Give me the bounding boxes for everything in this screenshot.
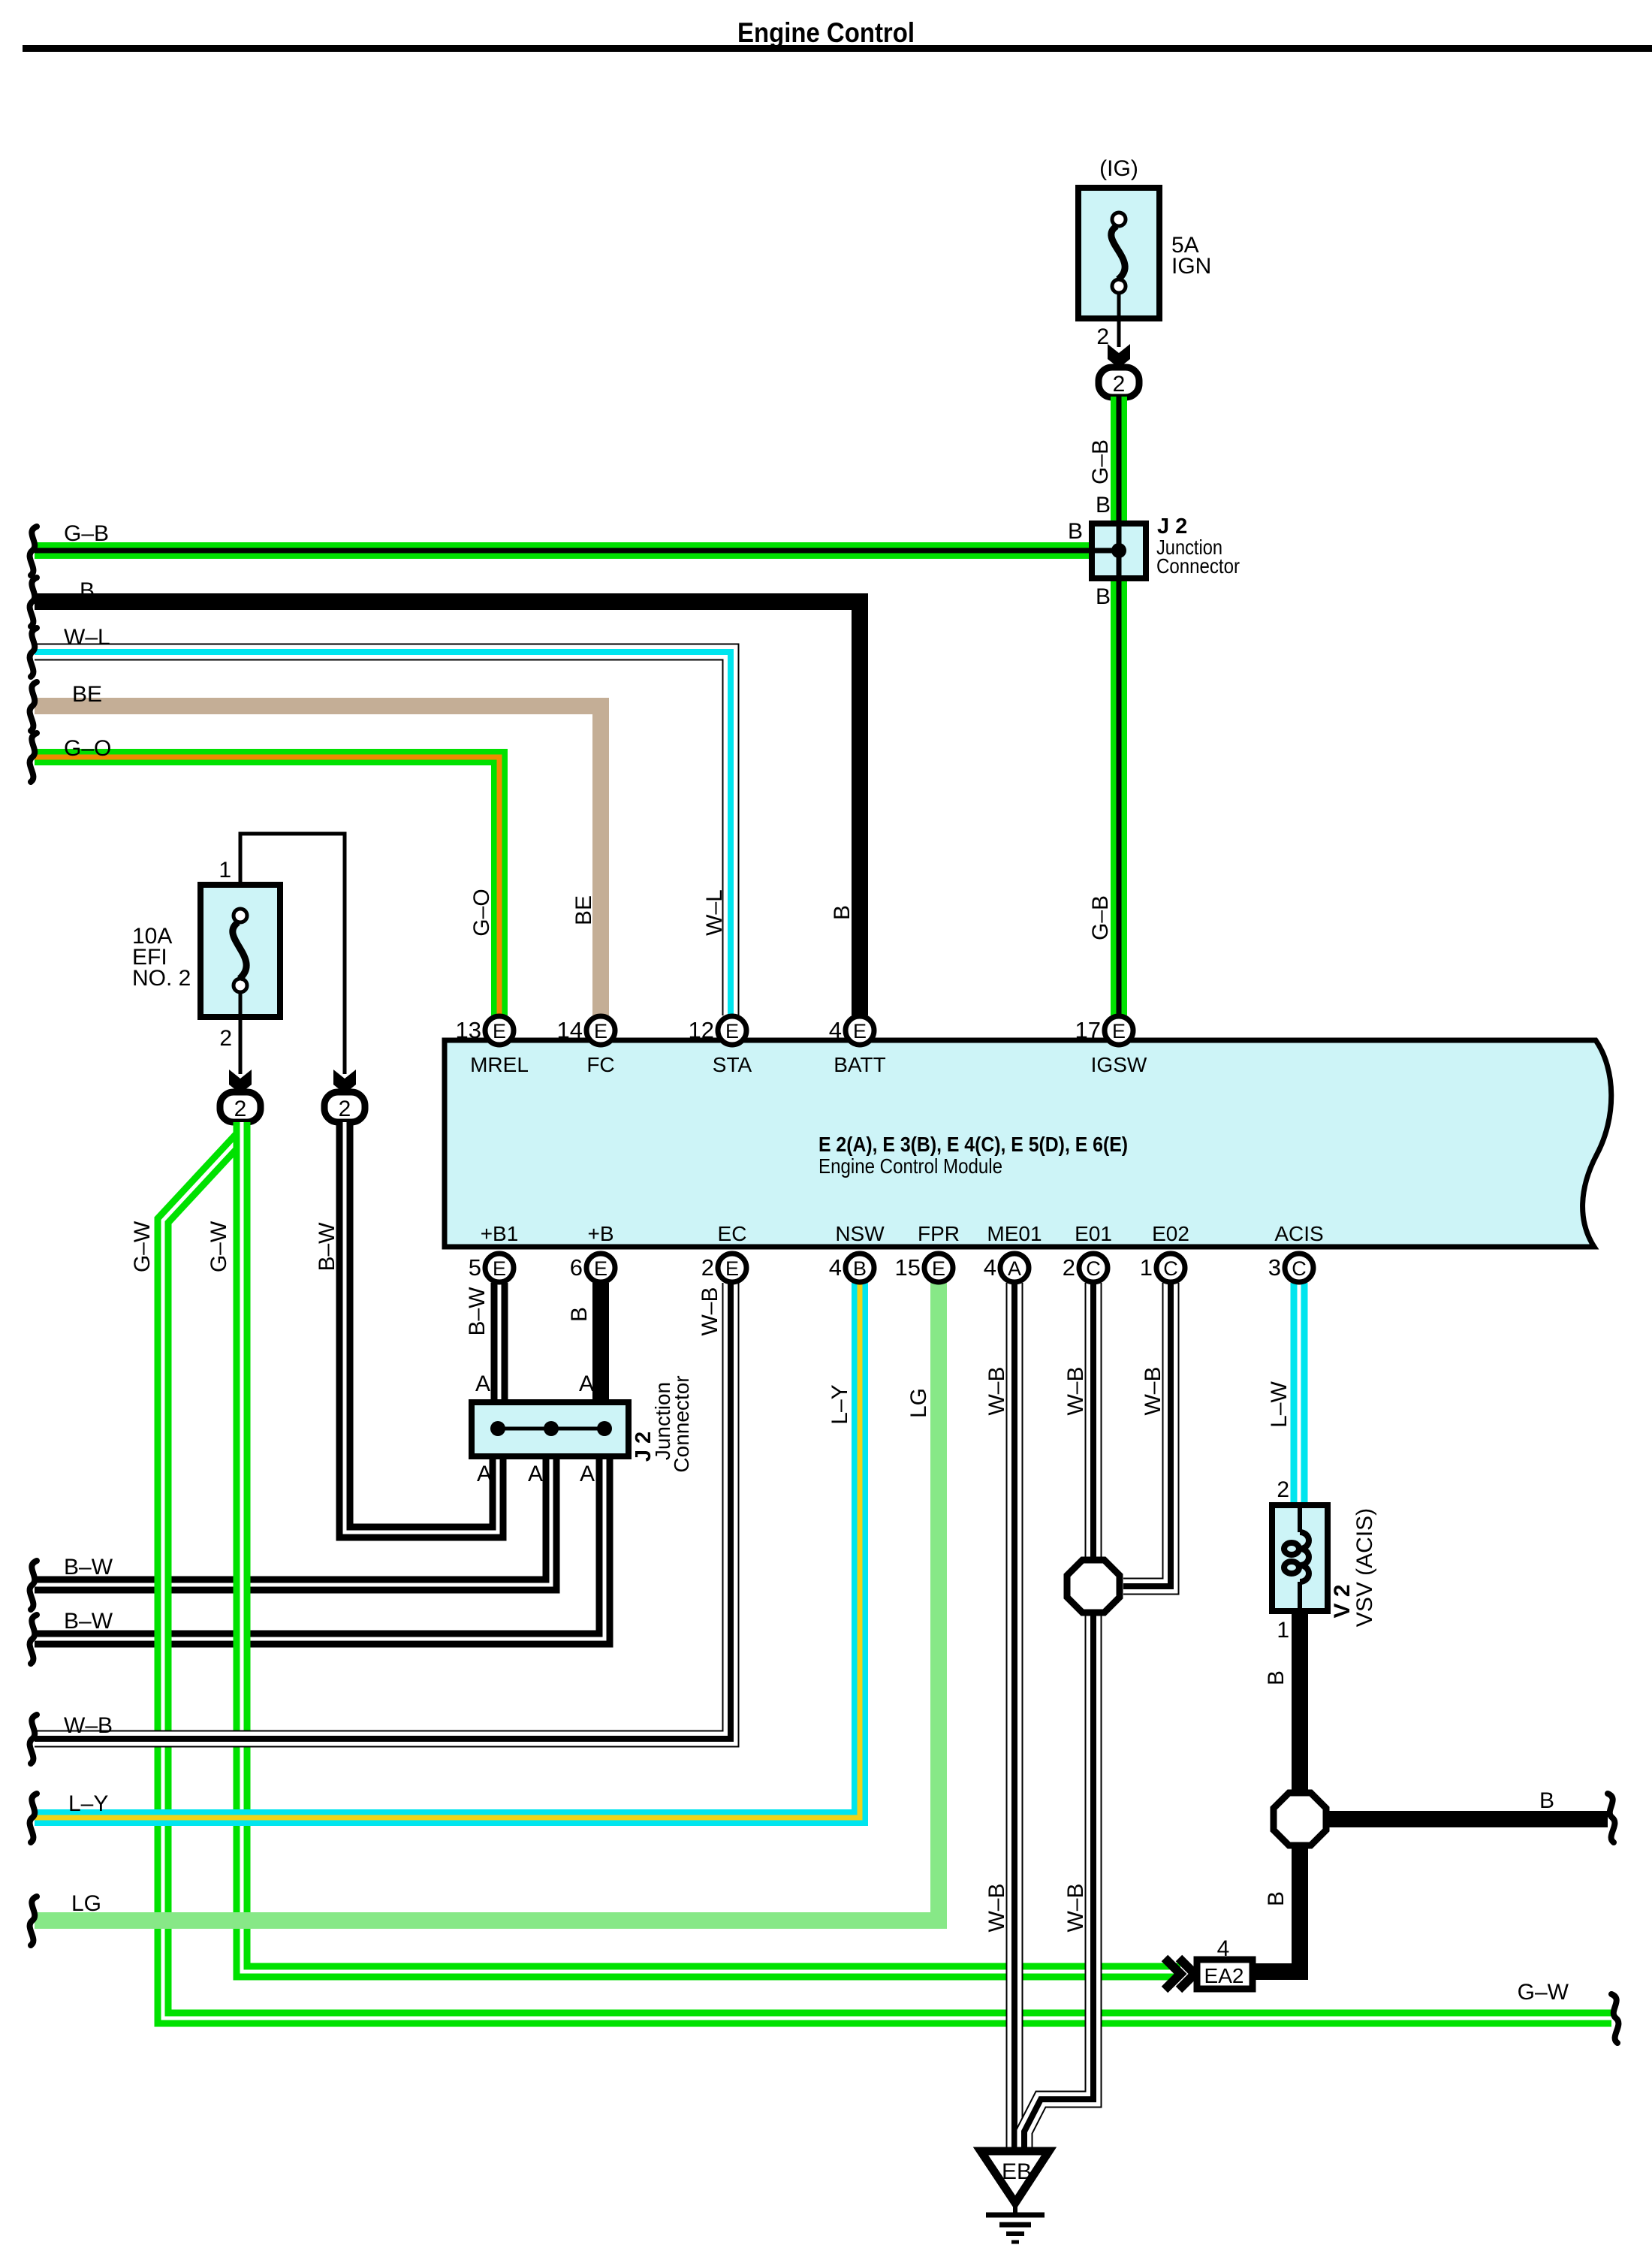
svg-text:E: E bbox=[493, 1257, 506, 1280]
wire B-W #2 (left edge to J2 lower right pin A) bbox=[35, 1459, 604, 1639]
ground bar 4 bbox=[1011, 2240, 1019, 2244]
svg-text:G–B: G–B bbox=[1088, 439, 1113, 484]
svg-text:BATT: BATT bbox=[834, 1053, 885, 1076]
svg-text:G–W: G–W bbox=[206, 1221, 231, 1272]
curly break LG left bbox=[30, 1896, 37, 1945]
svg-text:W–B: W–B bbox=[1063, 1366, 1088, 1415]
fuse F1 5A IGN box bbox=[1078, 188, 1159, 318]
svg-text:A: A bbox=[1008, 1257, 1021, 1280]
svg-text:B: B bbox=[567, 1307, 592, 1322]
pin 6 E (+B) bbox=[570, 1254, 615, 1282]
wire W-B ME01 (ECM pin 4A down to ground) bbox=[1006, 1283, 1023, 2153]
svg-text:2: 2 bbox=[1096, 324, 1109, 349]
svg-text:EB: EB bbox=[1002, 2159, 1032, 2184]
svg-text:L–W: L–W bbox=[1267, 1380, 1292, 1427]
svg-text:4: 4 bbox=[829, 1254, 842, 1281]
svg-text:E: E bbox=[853, 1020, 867, 1043]
svg-text:E: E bbox=[725, 1020, 739, 1043]
svg-text:15: 15 bbox=[895, 1254, 921, 1281]
arrow connector (loop wire) bbox=[333, 1070, 356, 1094]
svg-text:E: E bbox=[932, 1257, 945, 1280]
svg-text:C: C bbox=[1086, 1257, 1101, 1280]
pin 3 C (ACIS) bbox=[1268, 1254, 1313, 1282]
ground bar 2 bbox=[999, 2222, 1031, 2228]
J2 top: junction dot bbox=[1111, 543, 1126, 558]
fuse F1 symbol bbox=[1111, 213, 1126, 293]
pin 13 E (MREL) bbox=[456, 1016, 514, 1045]
arrow connector (fuse F2 pin2) bbox=[229, 1070, 252, 1094]
svg-text:Connector: Connector bbox=[670, 1375, 693, 1472]
svg-text:2: 2 bbox=[1063, 1254, 1075, 1281]
svg-text:C: C bbox=[1163, 1257, 1178, 1280]
svg-text:A: A bbox=[580, 1462, 595, 1486]
svg-text:4: 4 bbox=[829, 1017, 842, 1043]
wire B-W from right oval down and up to J2 lower left pin A bbox=[345, 1122, 498, 1532]
svg-text:NO. 2: NO. 2 bbox=[132, 966, 191, 991]
svg-text:W–B: W–B bbox=[64, 1713, 113, 1738]
oval connector 2 (left) bbox=[220, 1092, 261, 1122]
svg-text:B–W: B–W bbox=[64, 1555, 113, 1580]
wire B (left edge to BATT pin) bbox=[35, 602, 860, 1015]
svg-text:IGN: IGN bbox=[1171, 254, 1211, 279]
svg-text:G–B: G–B bbox=[64, 521, 109, 546]
svg-text:EA2: EA2 bbox=[1204, 1964, 1244, 1987]
curly break W-B left bbox=[30, 1715, 37, 1764]
wire fuse F2 pin2 down bbox=[239, 991, 243, 1074]
svg-text:B: B bbox=[1539, 1788, 1554, 1813]
curly break G-W right bbox=[1611, 1994, 1618, 2043]
svg-text:STA: STA bbox=[713, 1053, 752, 1076]
pin 1 C (E02) bbox=[1140, 1254, 1185, 1282]
svg-text:E02: E02 bbox=[1152, 1222, 1189, 1245]
svg-text:4: 4 bbox=[984, 1254, 996, 1281]
svg-text:V 2: V 2 bbox=[1330, 1584, 1355, 1618]
pin 2 C (E01) bbox=[1063, 1254, 1108, 1282]
svg-text:ACIS: ACIS bbox=[1274, 1222, 1323, 1245]
curly break G-O left bbox=[30, 733, 37, 782]
svg-text:E 2(A), E 3(B), E 4(C), E 5(D): E 2(A), E 3(B), E 4(C), E 5(D), E 6(E) bbox=[818, 1133, 1128, 1156]
svg-text:A: A bbox=[579, 1371, 594, 1396]
svg-text:Engine Control Module: Engine Control Module bbox=[818, 1154, 1002, 1178]
J2 lower: connecting line between dots bbox=[498, 1427, 604, 1431]
svg-text:1: 1 bbox=[1140, 1254, 1153, 1281]
wire B-W #1 (left edge to J2 lower middle pin A) bbox=[35, 1459, 551, 1585]
wire LG (left edge to FPR pin) bbox=[35, 1283, 939, 1921]
wire W-B E02 (ECM pin 1C to octagon right) bbox=[1123, 1283, 1171, 1586]
svg-text:B: B bbox=[830, 905, 855, 920]
curly break L-Y left bbox=[30, 1794, 37, 1842]
ground stub bbox=[1013, 2203, 1017, 2215]
fuse F2 10A EFI NO.2 box bbox=[200, 885, 280, 1017]
svg-text:BE: BE bbox=[72, 682, 102, 707]
svg-text:NSW: NSW bbox=[835, 1222, 885, 1245]
svg-text:B: B bbox=[1264, 1670, 1289, 1685]
svg-text:2: 2 bbox=[1277, 1477, 1289, 1502]
wire B-W +B1 (ECM pin 5 to J2 lower) bbox=[491, 1283, 508, 1405]
svg-text:14: 14 bbox=[557, 1017, 583, 1043]
svg-text:1: 1 bbox=[1277, 1618, 1289, 1643]
svg-text:E01: E01 bbox=[1075, 1222, 1112, 1245]
svg-text:W–B: W–B bbox=[1063, 1883, 1088, 1932]
pin 4 E (BATT) bbox=[829, 1016, 874, 1045]
pin 15 E (FPR) bbox=[895, 1254, 953, 1282]
pin 12 E (STA) bbox=[689, 1016, 746, 1045]
svg-text:E: E bbox=[493, 1020, 506, 1043]
svg-text:2: 2 bbox=[234, 1097, 247, 1121]
svg-text:2: 2 bbox=[339, 1097, 351, 1121]
wire fuse F1 pin2 down bbox=[1117, 291, 1121, 347]
svg-text:B–W: B–W bbox=[315, 1222, 339, 1272]
pin 5 E (+B1) bbox=[469, 1254, 514, 1282]
wire L-Y (left edge to NSW pin) bbox=[35, 1283, 860, 1818]
wire L-W (ACIS pin to VSV pin 2) bbox=[1291, 1283, 1308, 1507]
J2 top: vertical black line through box bbox=[1117, 521, 1122, 581]
svg-text:C: C bbox=[1292, 1257, 1307, 1280]
junction connector J2 (lower) box bbox=[472, 1402, 629, 1456]
svg-text:B: B bbox=[1096, 493, 1111, 517]
svg-text:FC: FC bbox=[586, 1053, 614, 1076]
svg-text:LG: LG bbox=[71, 1891, 101, 1916]
wire W-B E01 lower (octagon down, jog left to ground) bbox=[1024, 1613, 1093, 2151]
svg-text:EC: EC bbox=[718, 1222, 747, 1245]
svg-text:B: B bbox=[1068, 519, 1083, 544]
svg-text:E: E bbox=[594, 1020, 607, 1043]
svg-text:A: A bbox=[477, 1462, 492, 1486]
J2 lower: junction dot left bbox=[490, 1421, 505, 1436]
svg-text:W–B: W–B bbox=[698, 1287, 722, 1335]
svg-text:B–W: B–W bbox=[64, 1609, 113, 1634]
svg-text:IGSW: IGSW bbox=[1091, 1053, 1147, 1076]
wire G-W branch (diagonal, to left vertical and bottom right G-W) bbox=[163, 1136, 1611, 2018]
svg-text:A: A bbox=[528, 1462, 543, 1486]
svg-text:W–B: W–B bbox=[984, 1883, 1009, 1932]
oval connector 2 (right) bbox=[324, 1092, 365, 1122]
curly break G-B left bbox=[30, 527, 37, 575]
curly break B right bbox=[1608, 1794, 1614, 1842]
svg-text:B: B bbox=[1096, 584, 1111, 609]
svg-text:G–B: G–B bbox=[1088, 895, 1113, 940]
J2 lower: junction dot right bbox=[597, 1421, 612, 1436]
svg-text:FPR: FPR bbox=[918, 1222, 960, 1245]
svg-text:B–W: B–W bbox=[465, 1287, 490, 1336]
svg-text:B: B bbox=[853, 1257, 867, 1280]
arrow connector (IG to 2) bbox=[1108, 344, 1130, 368]
ground bar 1 bbox=[986, 2213, 1045, 2218]
connector EA2 chevrons bbox=[1165, 1958, 1180, 1990]
svg-text:W–L: W–L bbox=[702, 889, 727, 936]
svg-text:A: A bbox=[475, 1371, 490, 1396]
wire W-B (left edge to EC pin) bbox=[35, 1283, 731, 1739]
wire B +B (ECM pin 6 to J2 lower) bbox=[592, 1283, 609, 1405]
svg-text:G–O: G–O bbox=[469, 889, 494, 936]
pin 17 E (IGSW) bbox=[1075, 1016, 1133, 1045]
svg-text:1: 1 bbox=[219, 858, 231, 883]
wire G-B vertical (oval 2 to IGSW pin) bbox=[1111, 397, 1127, 1015]
solenoid V2 VSV (ACIS) box bbox=[1272, 1505, 1328, 1611]
wire B (octagon right to break) bbox=[1325, 1811, 1608, 1827]
svg-text:3: 3 bbox=[1268, 1254, 1281, 1281]
svg-text:5: 5 bbox=[469, 1254, 481, 1281]
svg-text:E: E bbox=[594, 1257, 607, 1280]
svg-text:+B: +B bbox=[587, 1222, 613, 1245]
pin 2 E (EC) bbox=[701, 1254, 746, 1282]
pin 4 A (ME01) bbox=[984, 1254, 1029, 1282]
octagon junction (B wires) bbox=[1274, 1793, 1326, 1845]
wire W-L (left edge to STA pin) bbox=[35, 652, 731, 1015]
curly break B left bbox=[30, 578, 37, 626]
pin 4 B (NSW) bbox=[829, 1254, 874, 1282]
ground EB triangle bbox=[981, 2151, 1049, 2203]
svg-text:2: 2 bbox=[1113, 372, 1126, 397]
curly break B-W #1 left bbox=[30, 1561, 37, 1610]
connector EA2 box bbox=[1197, 1960, 1253, 1989]
svg-text:Connector: Connector bbox=[1156, 554, 1240, 578]
svg-text:L–Y: L–Y bbox=[68, 1791, 108, 1816]
wire W-B E01 upper (ECM pin 2C to octagon) bbox=[1085, 1283, 1102, 1559]
svg-text:B: B bbox=[80, 578, 95, 603]
wire B (octagon bottom to EA2) bbox=[1250, 1844, 1300, 1972]
svg-text:B: B bbox=[1264, 1891, 1289, 1906]
wire BE (left edge to FC pin) bbox=[35, 706, 601, 1015]
svg-text:12: 12 bbox=[689, 1017, 714, 1043]
ECM U1 box: E2(A)..E6(E) Engine Control Module bbox=[445, 1040, 1611, 1247]
svg-text:2: 2 bbox=[219, 1026, 232, 1051]
svg-text:G–W: G–W bbox=[1518, 1980, 1569, 2005]
svg-text:LG: LG bbox=[906, 1388, 931, 1418]
svg-text:G–O: G–O bbox=[64, 736, 111, 761]
svg-text:17: 17 bbox=[1075, 1017, 1101, 1043]
svg-text:Engine Control: Engine Control bbox=[737, 17, 915, 48]
svg-text:13: 13 bbox=[456, 1017, 481, 1043]
wire G-B horizontal (left edge to J2 junction) bbox=[35, 542, 1092, 559]
svg-text:E: E bbox=[1112, 1020, 1126, 1043]
junction connector J2 (top) box bbox=[1092, 524, 1146, 578]
svg-text:G–W: G–W bbox=[130, 1221, 155, 1272]
pin 14 E (FC) bbox=[557, 1016, 615, 1045]
V2 coil symbol bbox=[1284, 1508, 1309, 1609]
svg-text:E: E bbox=[725, 1257, 739, 1280]
svg-text:W–L: W–L bbox=[64, 625, 110, 650]
svg-text:(IG): (IG) bbox=[1099, 156, 1138, 181]
curly break B-W #2 left bbox=[30, 1615, 37, 1664]
wire loop from fuse F2 pin1 over to connector bbox=[240, 834, 345, 1074]
svg-text:6: 6 bbox=[570, 1254, 583, 1281]
wire B (VSV pin 1 to octagon) bbox=[1292, 1611, 1308, 1795]
svg-text:MREL: MREL bbox=[470, 1053, 529, 1076]
octagon junction (E01/E02) bbox=[1067, 1560, 1120, 1613]
curly break BE left bbox=[30, 682, 37, 731]
title rule bbox=[23, 45, 1652, 52]
svg-text:+B1: +B1 bbox=[481, 1222, 519, 1245]
ground bar 3 bbox=[1006, 2231, 1024, 2236]
curly break W-L left bbox=[30, 628, 37, 677]
oval connector 2 (IGN) bbox=[1099, 367, 1139, 397]
J2 top: horizontal black stub into box bbox=[1090, 548, 1119, 554]
wire G-O (left edge to MREL pin) bbox=[35, 757, 499, 1015]
svg-text:ME01: ME01 bbox=[987, 1222, 1042, 1245]
svg-text:VSV (ACIS): VSV (ACIS) bbox=[1352, 1508, 1377, 1627]
wire G-W main (left oval down to EA2 wire) bbox=[242, 1122, 1180, 1972]
J2 lower: junction dot middle bbox=[544, 1421, 559, 1436]
svg-text:W–B: W–B bbox=[1141, 1366, 1165, 1415]
fuse F2 symbol bbox=[233, 909, 247, 992]
svg-text:L–Y: L–Y bbox=[828, 1384, 852, 1424]
svg-text:BE: BE bbox=[571, 895, 596, 925]
svg-text:2: 2 bbox=[701, 1254, 714, 1281]
svg-text:W–B: W–B bbox=[984, 1366, 1009, 1415]
